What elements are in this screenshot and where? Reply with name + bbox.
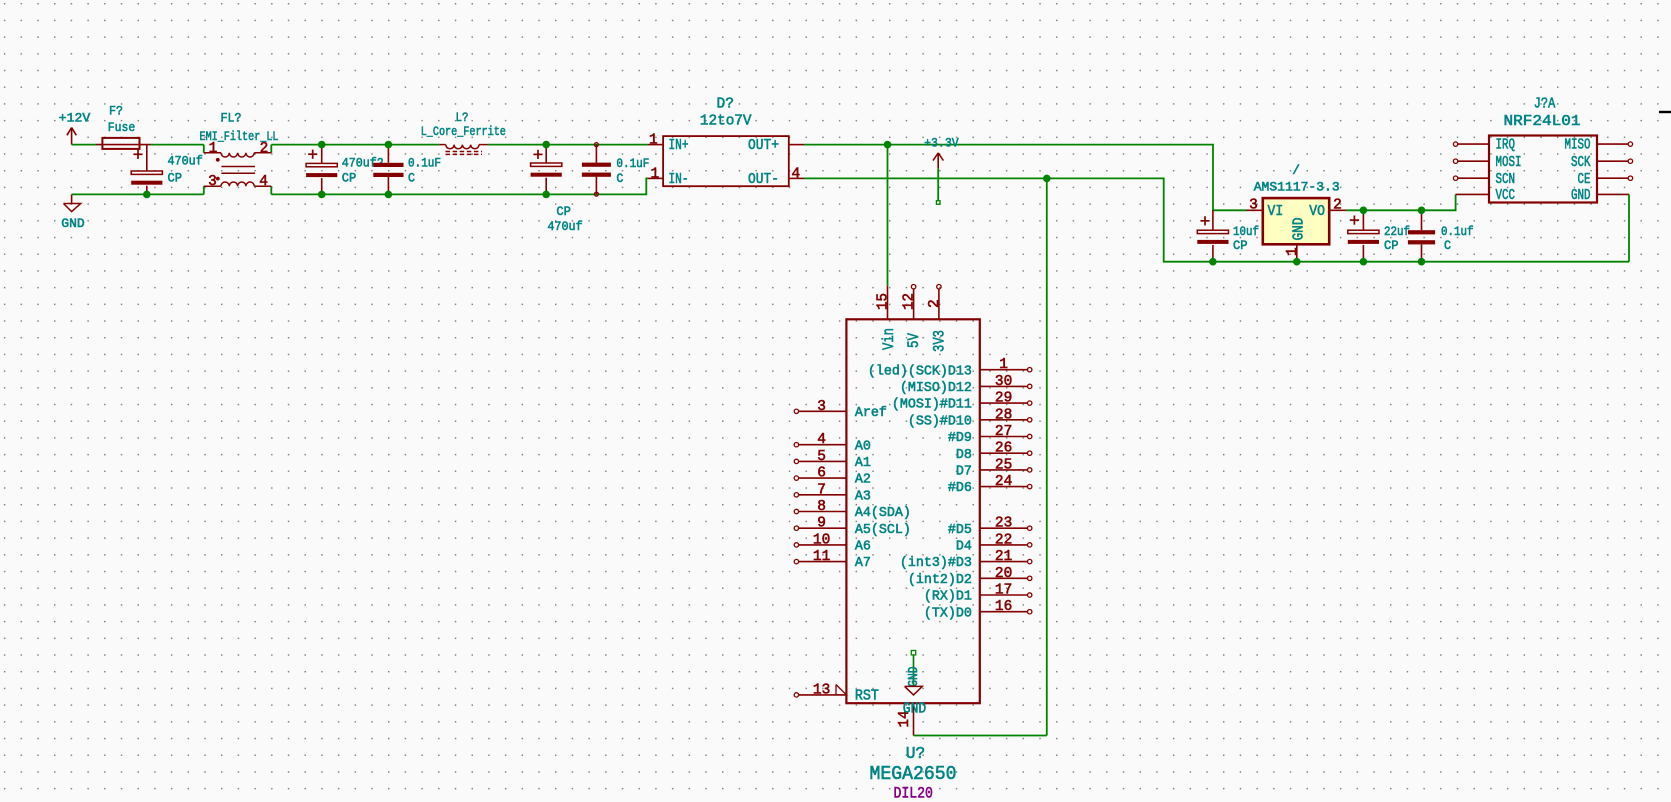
- svg-text:DIL20: DIL20: [893, 785, 933, 802]
- svg-text:GND: GND: [906, 666, 922, 687]
- ground symbol GND (left): [61, 194, 85, 231]
- wire MEGA GND net vertical: [1046, 178, 1048, 735]
- svg-text:1: 1: [999, 357, 1008, 373]
- wire FL? pin2 to L?: [271, 144, 439, 146]
- svg-text:16: 16: [995, 599, 1012, 615]
- svg-text:GND: GND: [903, 701, 926, 717]
- U? pin 17 (RX)D1: [924, 583, 1032, 605]
- svg-text:C: C: [1444, 238, 1451, 253]
- svg-text:10uf: 10uf: [1233, 224, 1259, 239]
- J?A left pin VCC: [1456, 193, 1489, 195]
- svg-text:SCK: SCK: [1571, 155, 1591, 171]
- capacitor CP 10uf: [1197, 210, 1259, 261]
- svg-text:MISO: MISO: [1565, 138, 1591, 154]
- svg-text:A0: A0: [855, 438, 871, 454]
- U? pin 9 A5(SCL): [794, 516, 911, 538]
- svg-text:21: 21: [995, 549, 1012, 565]
- wire VO to NRF24L01 VCC: [1346, 194, 1456, 210]
- svg-text:(SS)#D10: (SS)#D10: [908, 413, 972, 429]
- svg-text:GND: GND: [1571, 188, 1591, 204]
- svg-text:470uf: 470uf: [547, 219, 582, 234]
- svg-text:25: 25: [995, 457, 1012, 473]
- svg-text:Aref: Aref: [855, 405, 887, 421]
- U? pin 29 (MOSI)#D11: [892, 391, 1032, 413]
- svg-text:FL?: FL?: [221, 110, 242, 125]
- svg-text:Fuse: Fuse: [108, 120, 136, 135]
- junction C7 top: [1360, 207, 1368, 215]
- ground symbol GND inside U?: [905, 651, 923, 695]
- svg-text:VO: VO: [1309, 204, 1325, 220]
- svg-text:12: 12: [902, 293, 918, 310]
- wire Vin drop: [887, 145, 889, 286]
- svg-text:IN+: IN+: [669, 138, 689, 154]
- svg-text:IN-: IN-: [669, 172, 689, 188]
- svg-text:#D5: #D5: [948, 522, 972, 538]
- svg-text:20: 20: [995, 566, 1012, 582]
- U? pin 6 A2: [794, 466, 871, 488]
- wire OUT+ to regulator corner: [804, 145, 1247, 211]
- U? pin 20 (int2)D2: [908, 566, 1032, 588]
- wire NRF GND down to ground rail: [1628, 194, 1630, 261]
- svg-text:A2: A2: [855, 472, 871, 488]
- U? pin 22 D4: [956, 532, 1032, 554]
- svg-text:Vin: Vin: [880, 328, 898, 350]
- U? pin 7 A3: [794, 482, 871, 504]
- regulator U AMS1117-3.3: [1247, 163, 1346, 262]
- svg-text:0.1uF: 0.1uF: [616, 156, 649, 171]
- junction OUT- / MEGA GND drop: [1043, 175, 1051, 183]
- svg-text:J?A: J?A: [1534, 96, 1556, 113]
- junction C8 bottom: [1418, 258, 1426, 266]
- svg-text:26: 26: [995, 441, 1012, 457]
- svg-text:+3.3V: +3.3V: [924, 135, 959, 150]
- svg-text:OUT-: OUT-: [748, 172, 779, 188]
- svg-text:(MOSI)#D11: (MOSI)#D11: [892, 397, 972, 413]
- U? pin 12 5V: [902, 285, 924, 349]
- junction C3 bottom: [385, 191, 393, 199]
- U? pin 11 A7: [794, 549, 871, 571]
- U? pin 13 RST: [794, 682, 879, 704]
- junction C2 top: [318, 141, 326, 149]
- wire ground rail left: [72, 193, 204, 195]
- svg-text:NRF24L01: NRF24L01: [1504, 113, 1581, 130]
- svg-text:2: 2: [927, 299, 943, 308]
- svg-text:0.1uf: 0.1uf: [1441, 224, 1474, 239]
- junction regulator GND pin bottom: [1293, 258, 1301, 266]
- svg-text:F?: F?: [109, 103, 123, 118]
- svg-text:#D9: #D9: [948, 430, 972, 446]
- junction OUT+ / Vin drop: [884, 141, 892, 149]
- svg-text:CP: CP: [168, 171, 183, 186]
- svg-text:22uf: 22uf: [1384, 224, 1410, 239]
- MCU U? MEGA2650: [846, 319, 979, 703]
- svg-text:OUT+: OUT+: [748, 138, 779, 154]
- svg-text:0.1uF: 0.1uF: [408, 155, 441, 170]
- svg-text:CP: CP: [342, 171, 357, 186]
- U? pin 4 A0: [794, 432, 871, 454]
- svg-text:3: 3: [1249, 197, 1258, 213]
- power flag +3.3V: [924, 135, 959, 168]
- svg-text:VCC: VCC: [1496, 188, 1516, 204]
- svg-text:AMS1117-3.3: AMS1117-3.3: [1254, 180, 1340, 195]
- J?A right pin CE: [1597, 177, 1628, 179]
- U? pin 5 A1: [794, 449, 871, 471]
- svg-text:27: 27: [995, 424, 1012, 440]
- wire MEGA pin14 to GND net: [914, 735, 1047, 737]
- svg-text:A7: A7: [855, 555, 871, 571]
- svg-text:A5(SCL): A5(SCL): [855, 522, 911, 538]
- capacitor CP 470uf (before module): [531, 145, 583, 235]
- svg-text:1: 1: [650, 166, 659, 182]
- wire OUT- to bottom ground rail: [804, 178, 1629, 261]
- svg-text:4: 4: [259, 174, 268, 190]
- svg-text:L?: L?: [456, 110, 469, 125]
- U? pin 27 #D9: [948, 424, 1032, 446]
- U? pin 24 #D6: [948, 474, 1032, 496]
- junction C6 bottom: [1209, 258, 1217, 266]
- svg-text:GND: GND: [1292, 218, 1308, 241]
- svg-text:SCN: SCN: [1496, 172, 1516, 188]
- U? pin 23 #D5: [948, 516, 1032, 538]
- svg-text:470uf: 470uf: [168, 153, 203, 168]
- svg-text:MOSI: MOSI: [1496, 155, 1522, 171]
- svg-text:22: 22: [995, 532, 1012, 548]
- U? pin 3 Aref: [794, 399, 887, 421]
- svg-text:12to7V: 12to7V: [700, 112, 752, 129]
- svg-text:3: 3: [208, 174, 217, 190]
- dangling wire end square: [936, 201, 940, 205]
- capacitor CP 470uf2: [306, 145, 384, 195]
- wire bottom rail FL? pin4 to IN- corner: [271, 178, 648, 194]
- U? pin 15 Vin: [876, 286, 898, 350]
- svg-text:13: 13: [813, 682, 830, 698]
- svg-text:4: 4: [817, 432, 826, 448]
- U? pin 1 (led)(SCK)D13: [868, 357, 1032, 379]
- svg-text:/: /: [1292, 163, 1300, 178]
- junction C3 top: [385, 141, 393, 149]
- capacitor C 0.1uF (at module input): [582, 145, 650, 195]
- unconnected pin circle C5 bottom: [594, 192, 598, 196]
- J?A left pin MOSI: [1458, 160, 1489, 162]
- U? pin 26 D8: [956, 441, 1032, 463]
- svg-text:D7: D7: [956, 464, 972, 480]
- U? pin 25 D7: [956, 457, 1032, 479]
- svg-text:+12V: +12V: [59, 111, 91, 126]
- power flag +12V: [59, 111, 91, 145]
- capacitor CP 22uf: [1348, 210, 1410, 261]
- U? pin 14 GND: [897, 701, 926, 735]
- svg-text:D?: D?: [717, 96, 735, 113]
- svg-text:L_Core_Ferrite: L_Core_Ferrite: [421, 124, 506, 139]
- svg-text:3V3: 3V3: [930, 330, 948, 352]
- svg-text:A4(SDA): A4(SDA): [855, 505, 911, 521]
- svg-text:(int2)D2: (int2)D2: [908, 572, 972, 588]
- U? pin 10 A6: [794, 532, 871, 554]
- svg-text:C: C: [408, 171, 415, 186]
- junction C2 bottom: [318, 191, 326, 199]
- U? pin 16 (TX)D0: [924, 599, 1032, 621]
- capacitor C 0.1uF (after EMI): [373, 145, 441, 195]
- svg-text:(led)(SCK)D13: (led)(SCK)D13: [868, 363, 972, 379]
- svg-text:1: 1: [649, 133, 658, 149]
- svg-text:2: 2: [1333, 197, 1342, 213]
- svg-text:(RX)D1: (RX)D1: [924, 589, 972, 605]
- J?A left pin SCN: [1458, 177, 1489, 179]
- junction C4 bottom: [542, 191, 550, 199]
- svg-text:U?: U?: [906, 745, 926, 764]
- svg-text:15: 15: [876, 293, 892, 310]
- EMI filter FL? EMI_Filter_LL: [200, 110, 279, 194]
- svg-text:8: 8: [817, 499, 826, 515]
- svg-text:A1: A1: [855, 455, 871, 471]
- svg-text:9: 9: [817, 516, 826, 532]
- svg-text:A3: A3: [855, 488, 871, 504]
- svg-text:1: 1: [1285, 247, 1301, 256]
- svg-text:MEGA2650: MEGA2650: [870, 763, 957, 785]
- svg-text:A6: A6: [855, 539, 871, 555]
- svg-text:(TX)D0: (TX)D0: [924, 605, 972, 621]
- junction C8 top: [1418, 207, 1426, 215]
- svg-text:30: 30: [995, 374, 1012, 390]
- svg-text:CP: CP: [556, 204, 571, 219]
- svg-text:(MISO)D12: (MISO)D12: [900, 380, 972, 396]
- svg-text:11: 11: [813, 549, 830, 565]
- svg-text:23: 23: [995, 516, 1012, 532]
- svg-text:24: 24: [995, 474, 1012, 490]
- module D? 12to7V: [648, 96, 804, 188]
- unconnected pin circle C5 top: [594, 143, 598, 147]
- svg-text:EMI_Filter_LL: EMI_Filter_LL: [200, 129, 279, 144]
- svg-text:7: 7: [817, 482, 826, 498]
- clipped line at top right: [1659, 111, 1671, 113]
- junction C4 top: [542, 141, 550, 149]
- capacitor C 0.1uf (output): [1408, 210, 1474, 261]
- svg-text:CP: CP: [1384, 238, 1399, 253]
- svg-text:5: 5: [817, 449, 826, 465]
- svg-text:VI: VI: [1268, 204, 1284, 220]
- fuse F?: [96, 103, 151, 149]
- svg-text:5V: 5V: [905, 333, 923, 348]
- svg-text:GND: GND: [61, 216, 85, 231]
- svg-text:CE: CE: [1578, 172, 1591, 188]
- U? pin 2 3V3: [927, 285, 949, 353]
- junction C1 bottom: [143, 191, 151, 199]
- inductor L? L_Core_Ferrite: [421, 110, 506, 154]
- svg-text:10: 10: [813, 532, 830, 548]
- svg-text:6: 6: [817, 466, 826, 482]
- wire +3.3V dangling stem: [937, 169, 939, 201]
- svg-text:IRQ: IRQ: [1496, 138, 1516, 154]
- U? pin 8 A4(SDA): [794, 499, 911, 521]
- svg-text:D8: D8: [956, 447, 972, 463]
- svg-text:17: 17: [995, 583, 1012, 599]
- svg-text:29: 29: [995, 391, 1012, 407]
- svg-text:CP: CP: [1233, 238, 1248, 253]
- junction C7 bottom: [1360, 258, 1368, 266]
- J?A right pin GND: [1597, 193, 1629, 195]
- svg-text:(int3)#D3: (int3)#D3: [900, 555, 972, 571]
- U? pin 28 (SS)#D10: [908, 407, 1032, 429]
- svg-text:#D6: #D6: [948, 480, 972, 496]
- U? pin 21 (int3)#D3: [900, 549, 1032, 571]
- J?A right pin MISO: [1597, 143, 1628, 145]
- svg-text:C: C: [616, 171, 623, 186]
- svg-text:4: 4: [791, 166, 800, 182]
- svg-text:28: 28: [995, 407, 1012, 423]
- wire fuse to FL? pin 1: [151, 144, 204, 146]
- capacitor CP 470uf (input bulk): [131, 145, 203, 195]
- svg-text:D4: D4: [956, 539, 972, 555]
- wire +12V to fuse F?: [72, 144, 96, 146]
- connector J?A NRF24L01: [1453, 96, 1632, 205]
- U? pin 30 (MISO)D12: [900, 374, 1032, 396]
- svg-text:RST: RST: [855, 688, 879, 704]
- wire L? to IN+ pin: [488, 144, 648, 146]
- svg-text:3: 3: [817, 399, 826, 415]
- J?A right pin SCK: [1597, 160, 1628, 162]
- J?A left pin IRQ: [1458, 143, 1489, 145]
